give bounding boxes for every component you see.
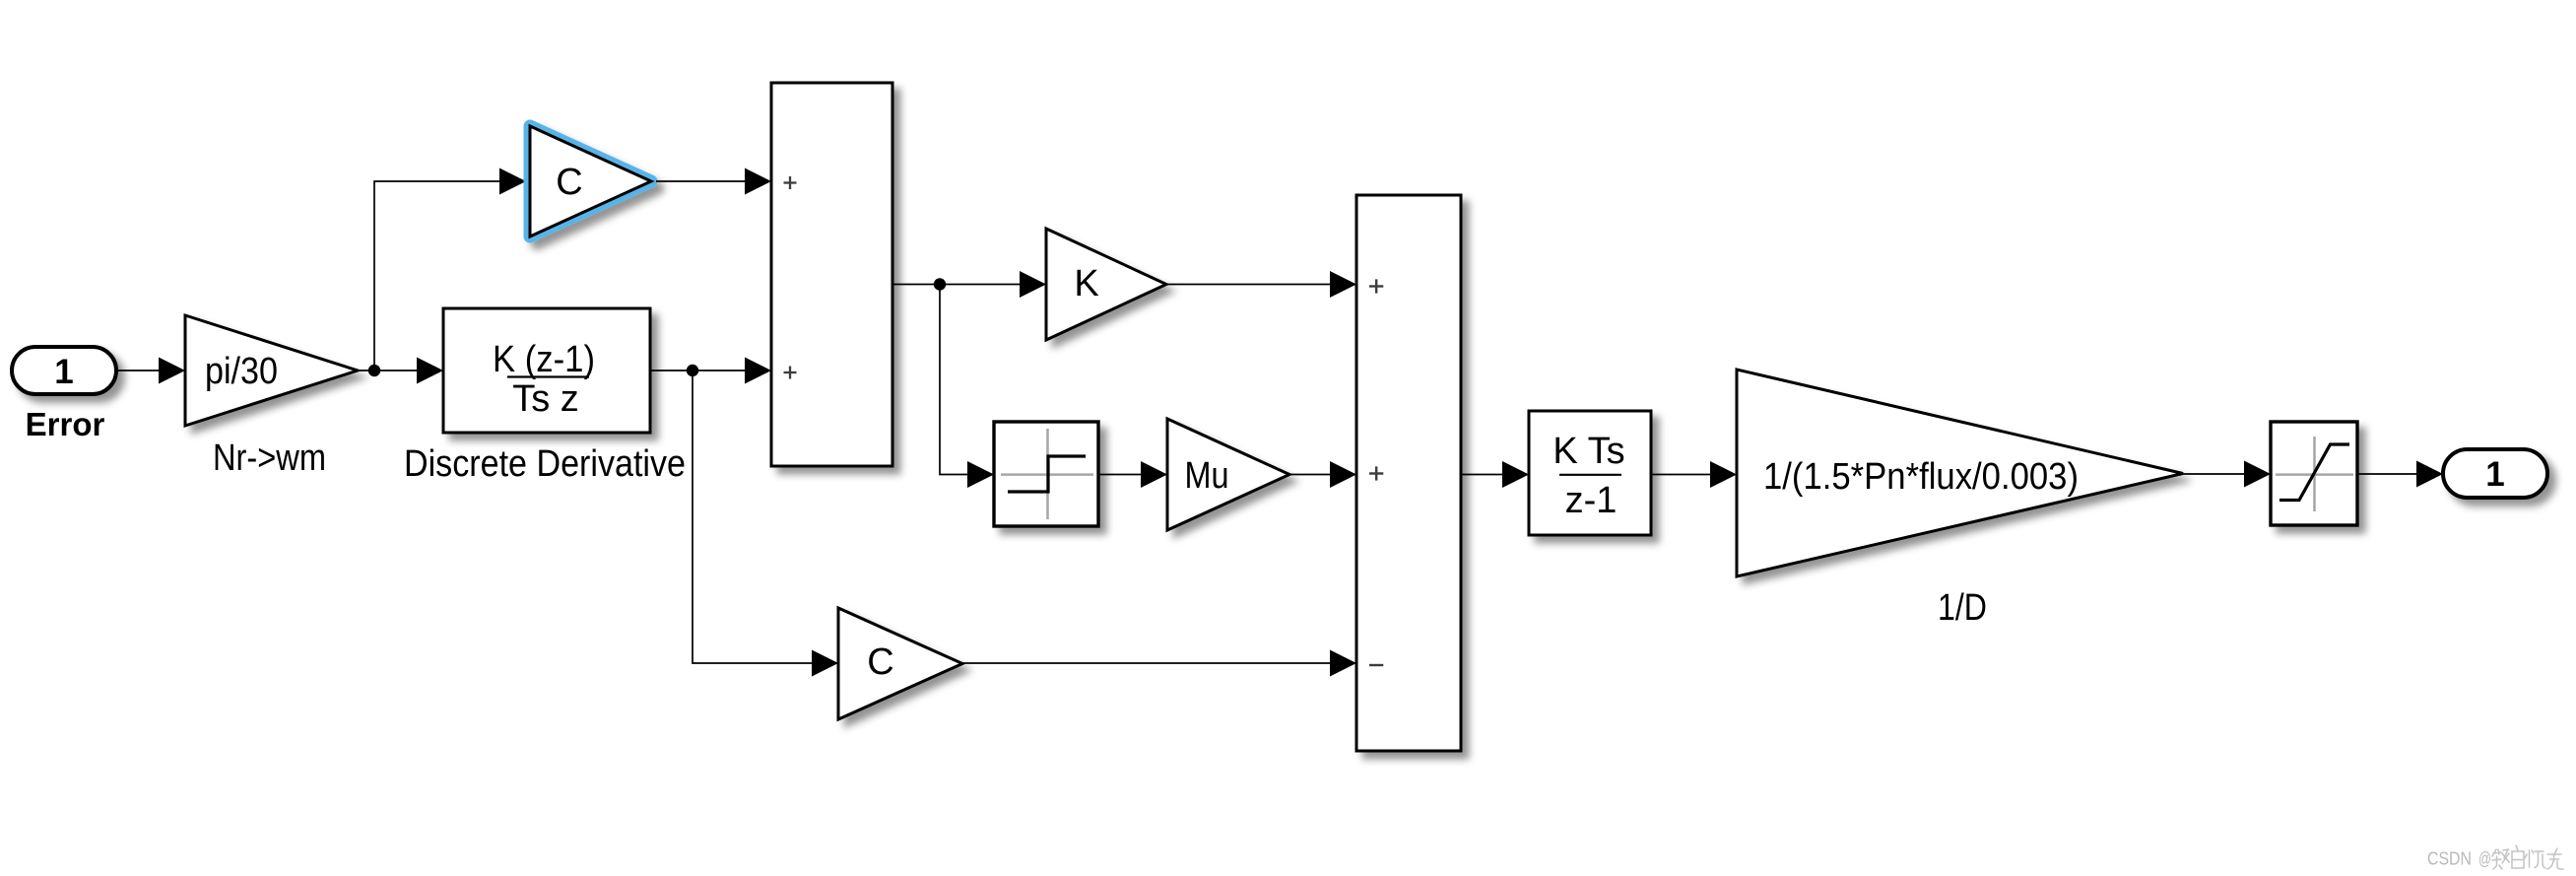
node junction after pi/30 (368, 365, 380, 376)
svg-text:z-1: z-1 (1565, 480, 1618, 521)
watermark CSDN (2427, 848, 2491, 869)
wire junction down to sign block (940, 285, 994, 489)
sum block 2 (1356, 195, 1461, 751)
saturation axes (2276, 437, 2353, 511)
svg-text:Ts z: Ts z (512, 378, 579, 420)
sum block 1 (771, 83, 892, 466)
gain Mu (1167, 419, 1289, 530)
wire gain K to sum2 input1 (1166, 271, 1356, 298)
sign plus input2 of sum1 (784, 367, 797, 379)
gain Nr->wm (pi/30) (185, 315, 358, 426)
node junction after sum1 (934, 278, 946, 290)
svg-text:Nr->wm: Nr->wm (213, 438, 326, 479)
svg-text:1: 1 (54, 353, 73, 391)
gain C2 (bottom) (838, 608, 962, 719)
wire junction down to gain C2 (693, 371, 838, 677)
block discrete integrator K Ts/z-1 (1529, 411, 1651, 535)
sign plus input2 of sum2 (1369, 466, 1383, 480)
block Discrete Derivative K(z-1)/Ts z (443, 308, 650, 433)
wire saturation to outport (2357, 461, 2443, 488)
watermark CJK glyphs (2492, 845, 2563, 869)
block Saturation (2271, 422, 2357, 525)
sign plus input1 of sum1 (784, 176, 797, 189)
wire DD to junction (650, 370, 693, 371)
svg-text:pi/30: pi/30 (205, 351, 278, 392)
gain K (1046, 229, 1166, 340)
wire branch up to gain C (374, 168, 526, 371)
svg-text:C: C (556, 162, 582, 203)
wire sum1 to junction (892, 284, 940, 286)
sign block step curve (1008, 456, 1086, 492)
sign block axes (1001, 429, 1093, 519)
sign plus input1 of sum2 (1369, 279, 1383, 293)
svg-text:Mu: Mu (1185, 455, 1229, 497)
svg-text:1/D: 1/D (1938, 587, 1987, 629)
label Discrete Derivative (404, 443, 686, 485)
saturation curve (2279, 444, 2349, 501)
outport 1 (2443, 449, 2547, 498)
svg-text:Discrete Derivative: Discrete Derivative (404, 443, 686, 485)
svg-text:Error: Error (26, 406, 105, 442)
svg-text:K: K (1074, 263, 1098, 304)
wire sign block to gain Mu (1098, 461, 1167, 488)
svg-text:K (z-1): K (z-1) (493, 339, 595, 380)
label Nr->wm (213, 438, 326, 479)
sign minus input3 of sum2 (1369, 664, 1383, 666)
wire junction to gain K (940, 271, 1046, 298)
wire gain Mu to sum2 input2 (1289, 461, 1356, 488)
gain C (selected, blue highlight) (530, 126, 651, 236)
label 1/D (1938, 587, 1987, 629)
svg-text:@: @ (2478, 848, 2491, 869)
svg-text:1: 1 (2485, 455, 2504, 494)
block Sign (relay icon) (994, 422, 1098, 526)
wire pi/30 to Discrete Derivative (358, 358, 443, 384)
svg-text:1/(1.5*Pn*flux/0.003): 1/(1.5*Pn*flux/0.003) (1763, 456, 2079, 498)
wire gain C2 to sum2 input3 (962, 650, 1356, 677)
svg-text:K Ts: K Ts (1552, 431, 1624, 472)
gain 1/D (big triangle) (1737, 370, 2183, 576)
svg-text:C: C (867, 641, 893, 683)
wire K Ts/z-1 to big gain (1651, 461, 1737, 488)
node junction after DD (687, 365, 698, 376)
wire junction to sum1 input2 (693, 358, 771, 384)
svg-text:CSDN: CSDN (2427, 848, 2472, 869)
label Error (26, 406, 105, 442)
wire inport to gain Nr->wm (116, 358, 185, 384)
wire sum2 to block K Ts/z-1 (1461, 461, 1529, 488)
inport 1 Error (12, 347, 116, 394)
wire big gain to saturation (2183, 461, 2271, 488)
wire gain C to sum1 (656, 168, 771, 195)
